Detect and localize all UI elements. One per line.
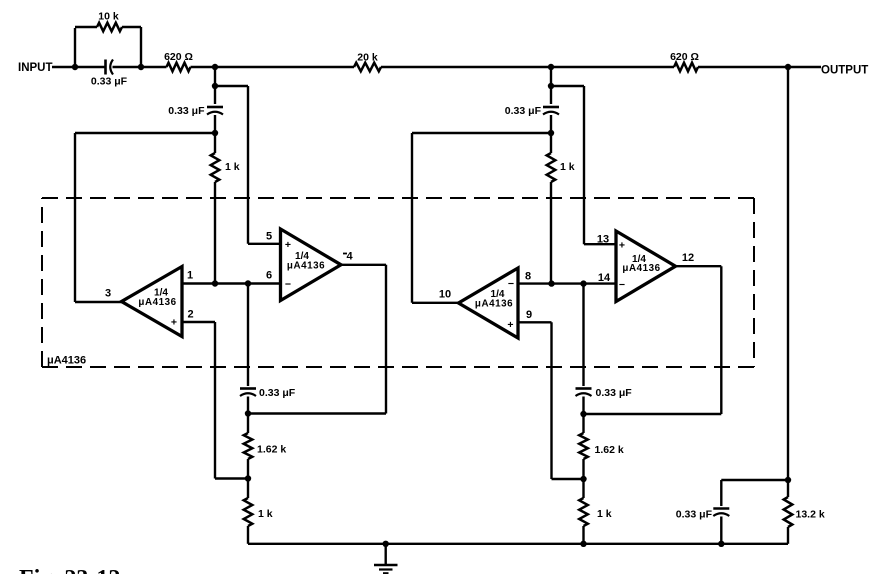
svg-text:μA4136: μA4136 [475, 299, 513, 310]
svg-text:10: 10 [439, 289, 451, 301]
svg-text:3: 3 [105, 288, 111, 300]
op-amp U1D triangle 1/4 uA4136 [616, 231, 676, 302]
svg-text:0.33 μF: 0.33 μF [505, 105, 542, 117]
svg-text:13.2 k: 13.2 k [796, 509, 825, 521]
wire pin3 U1A horizontal [75, 301, 122, 303]
wire U1B output down [385, 265, 387, 414]
node junction feedback return stage2 [580, 411, 586, 417]
svg-text:1.62 k: 1.62 k [257, 444, 286, 456]
wire top rail to output [698, 66, 821, 68]
op-amp U1B triangle 1/4 uA4136 [281, 229, 342, 301]
node junction pin1 wire at x215 [212, 280, 218, 286]
wire U1D output down [720, 266, 722, 414]
svg-text:0.33 μF: 0.33 μF [596, 387, 633, 399]
wire pin8 U1C to pin14 U1D [518, 282, 617, 284]
pin 4 superscript dash [343, 253, 347, 255]
svg-text:0.33 μF: 0.33 μF [676, 509, 713, 521]
svg-text:1 k: 1 k [560, 161, 575, 173]
wire input rail mid [113, 66, 167, 68]
ground symbol bar 1 [374, 564, 398, 567]
svg-text:8: 8 [525, 271, 531, 283]
uA4136 IC dashed boundary box [42, 198, 754, 367]
wire U1B feedback bottom horizontal [248, 412, 386, 414]
svg-text:9: 9 [526, 309, 532, 321]
svg-text:1: 1 [187, 270, 193, 282]
svg-text:μA4136: μA4136 [622, 263, 660, 274]
wire down to pin3 U1A [74, 133, 76, 302]
svg-text:Fig. 23-12: Fig. 23-12 [19, 566, 120, 574]
wire 10k loop right vertical [140, 27, 142, 67]
node junction output RC [785, 477, 791, 483]
svg-text:+: + [285, 239, 291, 251]
svg-text:μA4136: μA4136 [138, 297, 176, 308]
resistor R6 1 k zigzag [244, 498, 253, 526]
wire chain1 between resistors [247, 459, 249, 498]
ground symbol bar 3 [383, 572, 389, 574]
wire 13.2k top lead [787, 480, 789, 497]
svg-text:μA4136: μA4136 [287, 260, 325, 271]
node junction pin1 wire at x248 [245, 280, 251, 286]
svg-text:10 k: 10 k [98, 11, 119, 23]
node junction pin8 wire at x584 [580, 280, 586, 286]
svg-text:1.62 k: 1.62 k [595, 444, 624, 456]
resistor R10 1 k zigzag [579, 498, 588, 526]
wire down to pin10 U1C [411, 133, 413, 303]
wire top rail to 20k [191, 66, 355, 68]
wire stage1 column upper [214, 67, 216, 104]
resistor R3 1 k zigzag stage1 [211, 153, 220, 182]
wire chain1 top [247, 284, 249, 387]
wire stage2 column lower [550, 182, 552, 284]
node junction pin8 wire at x551 [548, 280, 554, 286]
wire pin2 bottom to divider junction [215, 477, 248, 479]
capacitor C5 0.33 uF plates [576, 387, 592, 390]
node junction chain2 ground rail [580, 541, 586, 547]
resistor R11 13.2 k zigzag [784, 497, 793, 527]
node junction ground stem [383, 541, 389, 547]
wire pin9 U1C down x551 [550, 322, 552, 479]
svg-text:−: − [285, 279, 291, 291]
wire U1D output right [676, 265, 722, 267]
wire chain2 top [582, 284, 584, 386]
wire feedback stage2 vertical x584 [583, 86, 585, 244]
node junction input left [72, 64, 78, 70]
svg-text:12: 12 [682, 252, 694, 264]
wire pin9 U1C horizontal [518, 321, 552, 323]
resistor R9 1.62 k zigzag [579, 433, 588, 459]
node junction cap bottom stage1 [212, 130, 218, 136]
wire U1D feedback bottom horizontal [584, 413, 722, 415]
wire chain2 between resistors [582, 459, 584, 498]
wire output branch vertical [787, 67, 789, 480]
resistor R2 620 ohm zigzag [167, 63, 191, 72]
wire pin1 U1A to pin6 U1B [182, 282, 282, 284]
svg-text:620 Ω: 620 Ω [670, 51, 699, 63]
wire stage1 column mid [214, 115, 216, 153]
wire U1B output right [341, 264, 386, 266]
wire feedback stage1 vertical x248 [247, 86, 249, 244]
op-amp U1A triangle 1/4 uA4136 [122, 267, 183, 337]
node junction feedback takeoff stage2 [548, 83, 554, 89]
node junction top rail stage1 [212, 64, 218, 70]
node junction input right [138, 64, 144, 70]
wire to pin13 of U1D [584, 243, 617, 245]
wire to pin5 of U1B [248, 243, 282, 245]
svg-text:0.33 μF: 0.33 μF [91, 76, 128, 88]
svg-text:−: − [619, 279, 625, 291]
ground symbol bar 2 [379, 568, 393, 570]
svg-text:1 k: 1 k [258, 508, 273, 520]
wire output RC horizontal [721, 479, 788, 481]
resistor R4 1.62 k zigzag [244, 433, 253, 459]
svg-text:+: + [171, 317, 177, 329]
svg-text:2: 2 [187, 309, 193, 321]
wire bottom ground rail [248, 543, 788, 545]
node junction feedback return stage1 [245, 410, 251, 416]
node junction top rail stage2 [548, 64, 554, 70]
svg-text:μA4136: μA4136 [47, 355, 86, 367]
wire chain2 below cap [582, 397, 584, 434]
resistor R5 20 k zigzag [354, 63, 381, 72]
wire cap node to opamp U1A input horizontal [75, 132, 215, 134]
wire feedback top stage1 horizontal [215, 85, 248, 87]
wire feedback top stage2 horizontal [551, 85, 584, 87]
svg-text:20 k: 20 k [357, 52, 378, 64]
svg-text:4: 4 [346, 251, 353, 263]
svg-text:14: 14 [598, 272, 611, 284]
wire 13.2k bottom lead [787, 527, 789, 544]
svg-text:OUTPUT: OUTPUT [821, 65, 868, 77]
wire 10k loop top right [122, 26, 141, 28]
wire pin2 U1A horizontal [182, 321, 215, 323]
node junction cap bottom stage2 [548, 130, 554, 136]
svg-text:13: 13 [597, 234, 609, 246]
wire 10k loop left vertical [74, 28, 76, 67]
ground symbol stem [385, 544, 387, 565]
capacitor C2 0.33 uF stage1 plates [207, 106, 223, 109]
wire chain1 below cap [247, 397, 249, 434]
capacitor C1 0.33 uF series input plates [104, 60, 107, 75]
svg-text:1 k: 1 k [225, 161, 240, 173]
svg-text:0.33 μF: 0.33 μF [168, 105, 205, 117]
svg-text:1 k: 1 k [597, 508, 612, 520]
wire 10k loop top left [75, 26, 97, 28]
node junction output top rail [785, 64, 791, 70]
wire stage2 column mid [550, 115, 552, 153]
wire input rail left [52, 66, 105, 68]
svg-text:−: − [508, 278, 514, 290]
wire top rail to second 620 [381, 66, 674, 68]
svg-text:+: + [619, 240, 625, 252]
node junction divider stage1 [245, 475, 251, 481]
wire pin9 bottom to divider junction [552, 478, 584, 480]
node junction feedback takeoff stage1 [212, 83, 218, 89]
wire stage2 column upper [550, 67, 552, 104]
node junction output cap ground rail [718, 541, 724, 547]
wire output cap top lead [720, 480, 722, 506]
svg-text:5: 5 [266, 231, 272, 243]
capacitor C6 0.33 uF plates [713, 507, 729, 510]
wire stage1 column lower [214, 182, 216, 284]
wire chain1 to ground rail [247, 526, 249, 544]
resistor R7 1 k zigzag stage2 [547, 153, 556, 182]
capacitor C3 0.33 uF plates [240, 387, 256, 390]
wire chain2 to ground rail [582, 526, 584, 544]
node junction divider stage2 [580, 476, 586, 482]
wire output cap bottom lead [720, 517, 722, 544]
resistor R8 620 ohm zigzag [674, 63, 698, 72]
svg-text:+: + [507, 319, 513, 331]
svg-text:620 Ω: 620 Ω [164, 51, 193, 63]
op-amp U1C triangle 1/4 uA4136 [459, 268, 519, 338]
wire pin10 U1C horizontal [412, 302, 459, 304]
wire cap node to opamp U1C input horizontal [412, 132, 551, 134]
resistor R1 10 k zigzag [97, 23, 122, 32]
svg-text:6: 6 [266, 270, 272, 282]
capacitor C4 0.33 uF stage2 plates [543, 106, 559, 109]
svg-text:INPUT: INPUT [18, 62, 53, 74]
svg-text:0.33 μF: 0.33 μF [259, 387, 296, 399]
wire pin2 U1A down x215 [214, 322, 216, 479]
